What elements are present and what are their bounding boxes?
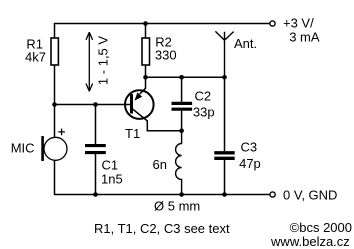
svg-text:C3: C3 — [241, 140, 258, 155]
wire top rail — [55, 24, 270, 39]
capacitor C2 — [172, 77, 193, 130]
node coil bottom — [179, 192, 184, 197]
node emitter junction — [179, 128, 184, 133]
antenna — [215, 31, 233, 77]
node C1 bottom — [93, 192, 98, 197]
svg-text:1n5: 1n5 — [101, 172, 123, 187]
resistor R1 — [51, 38, 58, 65]
wire base — [55, 104, 131, 106]
svg-text:T1: T1 — [125, 126, 140, 141]
node R2 top — [143, 21, 148, 26]
svg-text:6n: 6n — [153, 157, 167, 172]
wire MIC bottom + bottom rail — [55, 160, 270, 194]
wire R1 bottom to base junction — [54, 65, 56, 138]
wire mid rail — [146, 76, 225, 78]
terminal 0V — [270, 192, 275, 197]
terminal +3V — [270, 21, 275, 26]
microphone MIC — [43, 129, 67, 161]
svg-text:www.belza.cz: www.belza.cz — [270, 234, 350, 249]
inductor 6n (coil) — [176, 131, 182, 195]
svg-text:330: 330 — [155, 48, 177, 63]
svg-text:MIC: MIC — [11, 141, 35, 156]
resistor R2 — [142, 24, 150, 78]
svg-text:0 V, GND: 0 V, GND — [283, 187, 337, 202]
svg-text:47p: 47p — [239, 156, 261, 171]
svg-text:Ø 5 mm: Ø 5 mm — [154, 199, 200, 214]
svg-text:Ant.: Ant. — [234, 36, 257, 51]
svg-text:R1, T1, C2, C3 see text: R1, T1, C2, C3 see text — [94, 221, 230, 236]
transistor T1 — [125, 77, 182, 130]
node base junction — [52, 102, 57, 107]
node C2 top — [179, 75, 184, 80]
svg-text:+3 V/: +3 V/ — [283, 15, 314, 30]
svg-text:4k7: 4k7 — [25, 50, 46, 65]
svg-text:C1: C1 — [102, 157, 119, 172]
svg-text:3 mA: 3 mA — [289, 29, 320, 44]
capacitor C1 — [85, 105, 106, 195]
svg-text:C2: C2 — [195, 89, 212, 104]
svg-text:©bcs 2000: ©bcs 2000 — [290, 220, 352, 235]
capacitor C3 — [214, 77, 234, 194]
node C3 bottom — [222, 192, 227, 197]
node antenna junction — [222, 75, 227, 80]
svg-text:1 - 1,5 V: 1 - 1,5 V — [95, 36, 110, 85]
node collector junction — [143, 75, 148, 80]
measurement arrow 1-1.5V — [86, 32, 93, 91]
node C1 top — [93, 102, 98, 107]
svg-text:33p: 33p — [193, 104, 215, 119]
